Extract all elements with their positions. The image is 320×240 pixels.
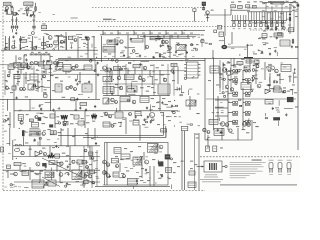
capacitor C61 <box>35 45 37 48</box>
wire <box>87 128 89 146</box>
label N392 <box>162 56 165 57</box>
transistor Q943 <box>35 116 38 119</box>
diode ring D913 <box>233 120 236 123</box>
diode ring D971 <box>245 78 248 81</box>
diode ring D933 <box>245 120 248 123</box>
connector J11 <box>213 146 217 152</box>
wire <box>37 142 39 146</box>
label N306 <box>112 124 115 127</box>
label N122 <box>239 65 242 66</box>
wire <box>281 4 283 30</box>
wire <box>24 10 32 12</box>
transistor Q913 <box>165 40 168 43</box>
label N223 <box>73 35 77 38</box>
resistor small <box>127 100 129 101</box>
label N398 <box>91 138 94 139</box>
wire route 2 <box>150 37 190 39</box>
label N500 <box>136 119 139 122</box>
IC U975 <box>166 167 172 172</box>
label N503 <box>268 102 270 105</box>
label N373 <box>144 55 147 58</box>
opto U906 led side <box>47 44 50 47</box>
label N24 <box>233 27 235 30</box>
label N381 <box>36 174 39 175</box>
wire <box>57 36 65 38</box>
label N106 <box>17 81 20 82</box>
label N301 <box>157 100 160 103</box>
IC U974 dark blob <box>158 161 163 166</box>
transistor Q933 <box>163 78 166 81</box>
resistor small <box>277 75 279 76</box>
label N205 <box>126 170 129 171</box>
resistor R906 fusible <box>46 54 48 55</box>
label N438 <box>47 80 50 81</box>
label N320 <box>66 145 69 148</box>
label N370 <box>120 55 123 58</box>
label N344 <box>59 161 63 164</box>
label N75 <box>174 32 177 35</box>
label N451 <box>228 61 231 64</box>
op-amp U959 <box>265 89 270 94</box>
label N9 <box>32 20 35 21</box>
node pad <box>36 86 39 89</box>
node junction <box>39 182 40 183</box>
wire bus lower <box>103 95 170 97</box>
op-amp U964 <box>35 151 41 156</box>
label N285 <box>261 67 264 70</box>
wire <box>66 36 68 50</box>
label N29 <box>260 27 262 30</box>
wire <box>103 83 157 85</box>
label N268 <box>81 93 83 96</box>
node pad <box>222 92 224 94</box>
label N67 <box>110 32 113 35</box>
label N458 <box>197 112 200 115</box>
diode ring D951 <box>233 78 236 81</box>
label N304 <box>144 123 146 126</box>
wire <box>151 77 153 85</box>
label N62 <box>79 37 82 38</box>
label N212 <box>20 7 23 10</box>
capacitor C23 <box>111 92 113 95</box>
label N290 <box>74 109 77 112</box>
label N71 <box>142 32 145 35</box>
resistor small <box>31 14 33 15</box>
label N450 <box>223 64 226 67</box>
label N406 <box>220 101 223 104</box>
wire <box>8 38 10 50</box>
wire <box>166 106 172 108</box>
wire <box>153 64 155 96</box>
node junction <box>258 49 259 50</box>
label module line 1 <box>205 173 217 176</box>
label N519 <box>158 177 161 180</box>
label N294 <box>18 109 21 112</box>
label N328 <box>108 163 110 166</box>
transistor Q984 <box>283 27 285 29</box>
label N73 <box>158 32 161 35</box>
label N390 <box>167 50 170 51</box>
wire <box>11 6 13 8</box>
capacitor C910 <box>202 7 204 9</box>
wire <box>45 101 51 103</box>
wire <box>69 158 71 170</box>
capacitor C945 <box>269 52 271 55</box>
label N276 <box>147 76 149 79</box>
wire bus mid <box>100 110 178 112</box>
node pad <box>94 70 96 72</box>
transistor Q944 <box>20 121 23 124</box>
label N85 <box>163 53 166 54</box>
capacitor C914 dark <box>49 124 53 127</box>
label N326 <box>136 177 139 180</box>
node junction <box>62 67 63 68</box>
node pad <box>4 120 6 122</box>
wire <box>223 36 225 44</box>
wire <box>94 128 96 140</box>
IC U982 audio out <box>72 170 82 180</box>
wire vertical rail <box>204 58 206 140</box>
label N229 <box>36 68 38 71</box>
capacitor C948 <box>145 168 147 171</box>
label N421 <box>270 17 273 20</box>
label N336 <box>167 176 169 179</box>
wire bottom board boundary <box>3 190 205 192</box>
transformer T4 flyback core <box>221 45 227 49</box>
wire <box>227 93 229 96</box>
diode ring D931 <box>245 101 248 104</box>
capacitor C944 <box>261 50 263 53</box>
label N25 <box>238 27 240 30</box>
label N182 <box>42 148 45 149</box>
node junction <box>19 128 20 129</box>
wire <box>84 111 86 128</box>
wire <box>109 86 111 94</box>
transistor Q986 <box>91 157 94 160</box>
wire <box>79 72 81 84</box>
resistor small <box>19 58 21 59</box>
label N214 <box>39 11 41 14</box>
wire CRT bus 4 <box>252 22 286 24</box>
label N157 <box>160 112 163 113</box>
wire <box>70 169 79 171</box>
wire CRT line 11 <box>258 12 260 21</box>
label N186 <box>65 161 68 162</box>
node junction <box>253 65 254 66</box>
label N375 <box>160 55 163 58</box>
node pad <box>247 82 249 84</box>
label N190 <box>93 160 96 161</box>
node junction <box>65 173 66 174</box>
label N233 <box>53 70 56 73</box>
wire stub <box>157 35 159 38</box>
label N497 <box>86 43 89 46</box>
wire <box>26 64 28 70</box>
wire <box>19 166 21 171</box>
node junction <box>119 126 120 127</box>
wire <box>243 79 245 81</box>
wire <box>177 110 180 112</box>
label N422 <box>278 16 281 19</box>
resistor R929 <box>281 24 284 27</box>
label N142 <box>26 114 29 115</box>
label N148 <box>41 123 45 124</box>
relay RL1 <box>42 25 47 28</box>
wire <box>75 99 77 111</box>
wire <box>128 88 134 90</box>
node pad module <box>225 165 227 167</box>
module M1 outline <box>204 161 222 172</box>
label dash 0 <box>212 111 215 114</box>
capacitor C923 <box>249 21 251 23</box>
transistor Q993 <box>123 175 126 178</box>
wire <box>131 80 137 82</box>
node junction <box>57 61 58 62</box>
capacitor C941 <box>167 44 169 47</box>
wire <box>114 38 116 58</box>
label note line 3 <box>230 165 264 168</box>
diode ring D950 <box>233 70 236 73</box>
wire bus 12V <box>0 98 100 100</box>
label N110 <box>122 66 126 67</box>
label N94 <box>253 53 257 54</box>
capacitor C19 <box>88 81 90 84</box>
resistor R930 <box>289 17 291 22</box>
IC U954 <box>115 112 123 118</box>
label N480 <box>213 69 216 72</box>
wire <box>215 106 224 108</box>
wire <box>10 173 14 175</box>
IC U902 video driver <box>238 5 243 8</box>
label N91 <box>262 38 266 39</box>
capacitor C43 <box>51 152 53 155</box>
label N216 <box>38 38 41 41</box>
wire bus pair A <box>58 134 163 136</box>
capacitor C930 <box>289 13 291 16</box>
IC U931 <box>103 76 112 81</box>
wire <box>17 72 19 86</box>
wire <box>150 105 152 112</box>
label N437 <box>27 80 30 81</box>
label N45 <box>28 38 31 39</box>
capacitor C915 dark bar <box>22 130 25 136</box>
IC U986 <box>89 152 93 155</box>
resistor R901 <box>35 6 37 12</box>
transistor Q946 <box>115 101 118 104</box>
label N187 <box>68 164 71 165</box>
label N482 <box>82 68 85 71</box>
label N137 <box>208 80 211 81</box>
label N14 <box>231 2 234 3</box>
wire <box>81 39 88 41</box>
connector J3 <box>214 30 217 33</box>
label N5 <box>18 10 21 11</box>
label N80 <box>196 44 199 45</box>
label N243 <box>180 52 183 55</box>
label N333 <box>125 166 128 169</box>
label N263 <box>68 76 71 79</box>
node pad <box>64 121 67 124</box>
wire CRT line 13 <box>264 12 266 21</box>
wire <box>271 6 273 30</box>
label N376 <box>168 55 171 58</box>
coil L1 shielded <box>61 115 67 119</box>
wire <box>83 146 85 188</box>
label N28 <box>254 27 256 30</box>
wire <box>31 42 33 50</box>
wire <box>277 121 279 126</box>
wire <box>9 112 11 128</box>
label N163 <box>195 134 198 135</box>
label N439 <box>52 90 55 91</box>
capacitor C927 <box>271 21 273 23</box>
wire CRT line 6 <box>245 15 247 20</box>
wire <box>77 36 79 50</box>
label N346 <box>11 183 14 186</box>
transistor Q965 <box>207 131 210 134</box>
label caps <box>29 127 39 130</box>
wire <box>7 10 9 15</box>
label N221 <box>12 40 15 43</box>
wire <box>23 55 25 63</box>
capacitor C40 <box>282 90 284 93</box>
wire <box>29 146 31 157</box>
wire <box>16 17 18 25</box>
label N133 <box>270 88 273 89</box>
label N329 <box>158 161 161 164</box>
resistor R930 <box>233 95 238 96</box>
node junction <box>110 83 111 84</box>
label pkg1 bottom <box>269 173 273 176</box>
label N65 <box>70 42 73 43</box>
label N476 <box>59 165 61 168</box>
label N230 <box>46 59 48 62</box>
label N481 <box>278 91 281 94</box>
label N297 <box>145 126 149 129</box>
wire <box>54 111 56 128</box>
label N179 <box>62 153 66 154</box>
wire CRT line 4 <box>240 15 242 20</box>
label N295 <box>19 109 22 112</box>
label N427 <box>288 24 291 27</box>
transistor Q982 <box>85 172 89 176</box>
IC U918 <box>254 60 259 64</box>
label N173 <box>253 122 256 123</box>
wire <box>193 11 195 21</box>
transistor Q992 <box>116 165 119 168</box>
label N49 <box>31 52 34 53</box>
label N200 <box>120 159 124 160</box>
wire pin <box>198 67 200 69</box>
label N107 <box>37 81 40 82</box>
delay line DL1 <box>55 84 62 92</box>
wire <box>56 34 64 36</box>
label N340 <box>51 162 54 165</box>
IC U970 dark <box>165 155 170 160</box>
label N161 <box>118 122 122 123</box>
label N468 <box>124 78 126 81</box>
IC U941 <box>71 98 75 101</box>
transistor Q945 <box>111 98 114 101</box>
IC U920 <box>44 65 50 69</box>
node junction <box>270 90 271 91</box>
IC U953 <box>186 100 196 106</box>
transistor Q924 <box>66 86 69 89</box>
label N501 <box>100 115 103 118</box>
node pad <box>32 32 35 35</box>
capacitor C50 <box>67 165 69 168</box>
diode ring D941 <box>248 101 251 104</box>
wire <box>35 173 42 175</box>
capacitor C947 dark <box>38 117 42 121</box>
node junction <box>174 100 175 101</box>
transistor Q958 <box>21 151 24 154</box>
wire <box>7 99 9 111</box>
label N228 <box>67 71 70 74</box>
label N299 <box>169 115 172 118</box>
label N254 <box>262 41 266 44</box>
wire <box>242 70 244 82</box>
node junction <box>161 176 162 177</box>
label N394 <box>8 124 11 125</box>
label N440 <box>141 168 144 169</box>
transistor Q957 <box>42 132 45 135</box>
transistor Q952 <box>283 90 286 93</box>
node junction <box>88 97 89 98</box>
resistor small <box>63 125 65 126</box>
label N48 <box>46 41 49 42</box>
label N335 <box>159 177 162 180</box>
label N193 <box>138 146 141 147</box>
IC U905 <box>41 43 45 46</box>
node junction <box>119 68 120 69</box>
transformer T5 <box>147 144 158 153</box>
transistor Q937 <box>237 69 240 72</box>
label N456 <box>179 121 182 124</box>
wire <box>119 69 121 76</box>
label N518 <box>143 181 146 184</box>
label N300 <box>145 118 148 121</box>
capacitor C11 <box>116 43 118 46</box>
label N15 <box>238 1 241 2</box>
label N266 <box>28 66 31 69</box>
wire <box>169 35 171 59</box>
label N473 <box>189 88 193 91</box>
label pkg2 bottom <box>278 173 282 176</box>
capacitor C57 <box>40 107 42 110</box>
label N101 <box>55 77 58 78</box>
label N309 <box>255 125 258 128</box>
label N489 <box>163 56 167 59</box>
label N408 <box>262 2 265 5</box>
wire <box>228 101 233 103</box>
transistor Q989 <box>92 181 95 184</box>
label N395 <box>5 115 7 116</box>
label N399 <box>152 106 155 107</box>
wire CRT bus left 2 <box>231 9 250 11</box>
connector P1 mains plug <box>5 7 8 10</box>
label N242 <box>185 58 188 61</box>
label N430 <box>258 50 261 51</box>
label N224 <box>36 63 38 66</box>
transistor Q964 <box>203 128 206 131</box>
node junction <box>113 79 114 80</box>
label N496 <box>28 34 32 37</box>
wire <box>186 45 188 46</box>
label N226 <box>85 52 88 55</box>
label N60 <box>54 35 57 36</box>
wire <box>243 111 245 113</box>
